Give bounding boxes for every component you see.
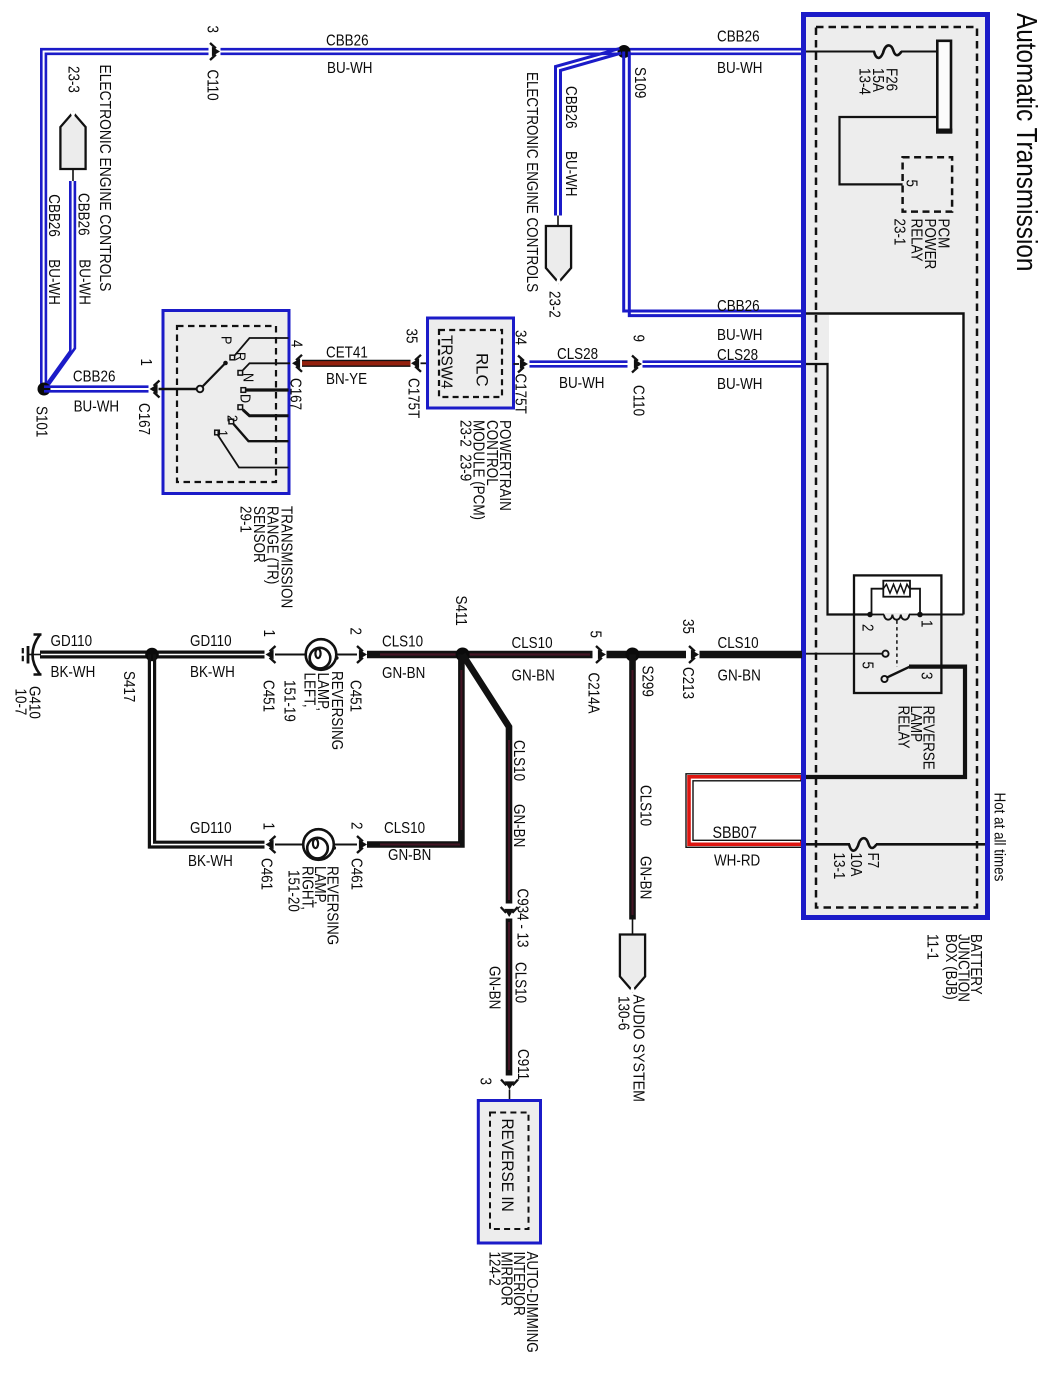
svg-text:5: 5 bbox=[858, 662, 875, 669]
wire CLS28 PCM to BJB bbox=[530, 362, 803, 367]
svg-text:Automatic Transmission: Automatic Transmission bbox=[1011, 13, 1043, 271]
connector C451 pin1 arrow bbox=[266, 646, 276, 663]
BJB name labels bbox=[923, 934, 984, 1002]
svg-text:BU-WH: BU-WH bbox=[717, 376, 763, 393]
relay name labels bbox=[894, 706, 936, 770]
mirror dashed border bbox=[490, 1113, 529, 1230]
splice S101 bbox=[38, 383, 51, 396]
svg-text:CLS10: CLS10 bbox=[382, 634, 423, 651]
svg-text:BK-WH: BK-WH bbox=[188, 853, 233, 870]
svg-text:S109: S109 bbox=[631, 67, 648, 98]
ground G410 bbox=[23, 635, 42, 675]
svg-text:CBB26: CBB26 bbox=[717, 298, 760, 315]
splice S411 bbox=[456, 648, 470, 662]
relay pin 2 dot bbox=[867, 612, 873, 618]
svg-text:C461: C461 bbox=[347, 858, 364, 890]
wire CLS10 S411 diagonal down to mirror bbox=[463, 655, 509, 1076]
TR stub D bbox=[243, 410, 289, 416]
svg-text:C110: C110 bbox=[203, 70, 220, 101]
svg-text:CLS28: CLS28 bbox=[717, 347, 758, 364]
splice S417 bbox=[145, 648, 159, 662]
svg-text:GN-BN: GN-BN bbox=[718, 668, 761, 685]
svg-text:ELECTRONIC ENGINE CONTROLS: ELECTRONIC ENGINE CONTROLS bbox=[96, 65, 113, 292]
svg-text:CLS10: CLS10 bbox=[718, 635, 759, 652]
svg-text:C213: C213 bbox=[679, 667, 696, 699]
wire GD110 ground to C451 bbox=[40, 652, 265, 657]
svg-text:GN-BN: GN-BN bbox=[388, 847, 431, 864]
TR stub 2 bbox=[234, 424, 289, 441]
svg-text:C167: C167 bbox=[135, 403, 152, 435]
svg-text:23-2 23-9: 23-2 23-9 bbox=[456, 420, 473, 481]
PCM power relay dashed box bbox=[903, 157, 953, 211]
svg-text:BU-WH: BU-WH bbox=[562, 151, 579, 197]
wire SBB07 loop inner bbox=[693, 781, 802, 841]
wire CBB26 S101 to TR sensor bbox=[44, 387, 149, 392]
svg-text:D: D bbox=[237, 394, 254, 403]
wire CBB26 S109 down to BJB bbox=[624, 52, 802, 312]
relay actuation dashed line bbox=[896, 621, 898, 668]
connector C934 arrow bbox=[501, 907, 518, 917]
svg-text:C461: C461 bbox=[257, 858, 274, 890]
svg-text:C451: C451 bbox=[259, 680, 276, 712]
svg-text:C167: C167 bbox=[286, 378, 303, 410]
relay pin 5 feed wire bbox=[806, 653, 882, 655]
connector C110 pin9 arrow bbox=[632, 356, 642, 373]
relay pin 1 dot bbox=[917, 612, 923, 618]
svg-text:GD110: GD110 bbox=[51, 633, 93, 650]
fuse F7 bbox=[849, 838, 877, 850]
svg-text:SBB07: SBB07 bbox=[713, 824, 757, 842]
svg-text:F7: F7 bbox=[864, 853, 881, 869]
svg-text:5: 5 bbox=[586, 631, 603, 638]
auto-dimming mirror box bbox=[478, 1101, 540, 1244]
svg-text:CBB26: CBB26 bbox=[74, 193, 91, 236]
svg-text:N: N bbox=[240, 373, 257, 382]
svg-text:BU-WH: BU-WH bbox=[717, 327, 763, 344]
svg-text:C934 - 13: C934 - 13 bbox=[513, 889, 530, 948]
connector C214A arrow bbox=[596, 646, 606, 663]
svg-text:CET41: CET41 bbox=[326, 345, 368, 362]
connector C461 pin1 arrow bbox=[266, 836, 276, 853]
svg-text:124-2: 124-2 bbox=[485, 1252, 502, 1286]
offpage arrow electronic engine controls 23-2 bbox=[546, 226, 571, 284]
reversing lamp left bbox=[306, 639, 339, 670]
svg-text:WH-RD: WH-RD bbox=[714, 853, 760, 870]
svg-text:23-2: 23-2 bbox=[545, 291, 562, 318]
svg-text:C175T: C175T bbox=[404, 378, 421, 418]
svg-text:RELAY: RELAY bbox=[907, 219, 924, 262]
connector C110 pin9 gap bbox=[628, 357, 643, 372]
svg-text:CBB26: CBB26 bbox=[73, 368, 116, 385]
offpage arrow audio system bbox=[620, 935, 645, 993]
svg-text:3: 3 bbox=[476, 1078, 493, 1085]
svg-text:RLC: RLC bbox=[472, 353, 490, 387]
TR sensor dashed border bbox=[177, 326, 276, 482]
svg-text:BU-WH: BU-WH bbox=[45, 259, 62, 305]
connector C167 pin1 arrow bbox=[150, 381, 160, 398]
relay resistor parallel links bbox=[872, 589, 921, 615]
svg-text:1: 1 bbox=[260, 630, 277, 637]
wire SBB07 loop red band bbox=[689, 777, 802, 845]
svg-text:34: 34 bbox=[511, 330, 528, 345]
svg-text:10A: 10A bbox=[847, 853, 864, 877]
TR contact 2 bbox=[229, 419, 234, 424]
TR sensor common wire bbox=[159, 388, 197, 390]
connector C213 arrow bbox=[689, 646, 699, 663]
svg-text:BOX (BJB): BOX (BJB) bbox=[942, 934, 959, 1000]
svg-text:29-1: 29-1 bbox=[236, 506, 253, 533]
svg-text:CBB26: CBB26 bbox=[326, 33, 369, 50]
TR contact 1 bbox=[215, 430, 220, 435]
svg-text:10-7: 10-7 bbox=[11, 689, 28, 716]
wire F26 feed inside BJB bbox=[806, 51, 937, 53]
connector C175T pin34 arrow bbox=[514, 363, 520, 365]
wire CET41 bbox=[302, 360, 411, 367]
relay coil bbox=[870, 614, 920, 616]
svg-text:9: 9 bbox=[629, 335, 646, 342]
wire CBB26 top run bbox=[41, 49, 802, 385]
svg-text:35: 35 bbox=[679, 619, 696, 634]
splice S299 bbox=[626, 648, 640, 662]
TR stub 1 bbox=[218, 435, 289, 468]
battery junction box BJB body bbox=[804, 15, 988, 918]
wire SBB07 loop outer bbox=[686, 774, 802, 848]
fuse F26 bbox=[874, 45, 902, 57]
wire CLS10 lamp left to S411 to BJB bbox=[367, 651, 802, 659]
BJB inner white zone bbox=[829, 315, 962, 613]
relay armature contact bbox=[881, 676, 887, 682]
PCM box bbox=[428, 318, 514, 408]
relay pin 5 contact bbox=[882, 651, 888, 657]
svg-text:CLS10: CLS10 bbox=[512, 635, 553, 652]
svg-text:BU-WH: BU-WH bbox=[559, 375, 605, 392]
svg-text:ELECTRONIC ENGINE CONTROLS: ELECTRONIC ENGINE CONTROLS bbox=[523, 72, 540, 292]
fuse F7 labels bbox=[830, 853, 881, 880]
wire GD110 S417 down to lamp right bbox=[149, 655, 264, 848]
TR contact D bbox=[238, 405, 243, 410]
svg-text:GD110: GD110 bbox=[190, 820, 232, 837]
svg-text:23-3: 23-3 bbox=[64, 66, 81, 93]
connector C461 pin2 arrow bbox=[334, 844, 357, 846]
svg-text:CBB26: CBB26 bbox=[562, 86, 579, 129]
svg-text:3: 3 bbox=[917, 672, 934, 679]
relay pin 3 output wire bbox=[806, 667, 965, 777]
svg-text:2: 2 bbox=[858, 624, 875, 631]
reversing lamp right bbox=[303, 829, 336, 860]
offpage arrow electronic engine controls 23-3 bbox=[60, 111, 85, 169]
connector C451 pin2 arrow bbox=[337, 654, 357, 656]
svg-text:LEFT,: LEFT, bbox=[300, 673, 317, 708]
TR stub P bbox=[235, 338, 289, 355]
svg-text:CBB26: CBB26 bbox=[45, 194, 62, 237]
svg-text:C175T: C175T bbox=[511, 374, 528, 414]
svg-text:2: 2 bbox=[224, 415, 241, 422]
wire CBB26 from arrow 23-3 to S101 bbox=[43, 181, 70, 389]
svg-text:BU-WH: BU-WH bbox=[717, 60, 763, 77]
svg-text:1: 1 bbox=[214, 430, 231, 437]
svg-text:13-4: 13-4 bbox=[855, 68, 872, 95]
wire CBB26 bus inside BJB bbox=[806, 314, 964, 615]
TR sensor box bbox=[163, 311, 289, 494]
PCM name labels bbox=[456, 420, 513, 520]
TR stub N bbox=[246, 388, 289, 391]
svg-text:C214A: C214A bbox=[584, 673, 601, 714]
svg-text:Hot at all times: Hot at all times bbox=[990, 793, 1007, 882]
wire CLS28 inside BJB to relay pin 2 bbox=[806, 364, 870, 615]
svg-text:CLS28: CLS28 bbox=[557, 346, 598, 363]
TR contact P bbox=[230, 355, 235, 360]
svg-text:23-1: 23-1 bbox=[890, 219, 907, 246]
svg-text:S411: S411 bbox=[452, 596, 469, 626]
svg-text:CLS10: CLS10 bbox=[511, 962, 528, 1003]
wire CBB26 S109 branch to arrow 23-2 bbox=[556, 49, 620, 216]
svg-text:1: 1 bbox=[259, 823, 276, 830]
svg-text:GN-BN: GN-BN bbox=[510, 804, 527, 847]
svg-text:2: 2 bbox=[347, 822, 364, 829]
TR contact R bbox=[238, 371, 243, 376]
svg-text:C451: C451 bbox=[346, 680, 363, 712]
fuse F7 feed wires bbox=[806, 843, 988, 846]
svg-text:13-1: 13-1 bbox=[830, 853, 847, 880]
connector C110 gap bbox=[209, 44, 221, 59]
svg-text:BU-WH: BU-WH bbox=[327, 60, 373, 77]
wire CLS10 S299 down to audio bbox=[629, 655, 636, 920]
svg-text:R: R bbox=[232, 352, 249, 361]
TR sensor pivot bbox=[197, 386, 204, 393]
svg-text:5: 5 bbox=[902, 180, 919, 187]
TR sensor name labels bbox=[236, 506, 294, 608]
svg-text:1: 1 bbox=[917, 620, 934, 627]
svg-text:GN-BN: GN-BN bbox=[485, 966, 502, 1009]
svg-text:151-19: 151-19 bbox=[280, 680, 297, 722]
BJB inner dashed border bbox=[816, 27, 977, 908]
svg-text:3: 3 bbox=[203, 26, 220, 33]
reversing lamp right labels bbox=[284, 866, 340, 945]
svg-text:GN-BN: GN-BN bbox=[512, 668, 555, 685]
PCM dashed border bbox=[439, 330, 502, 397]
relay resistor box bbox=[883, 581, 910, 597]
svg-text:BK-WH: BK-WH bbox=[190, 664, 235, 681]
svg-text:P: P bbox=[218, 336, 235, 344]
svg-text:11-1: 11-1 bbox=[923, 934, 940, 960]
TR contact N bbox=[241, 388, 246, 393]
svg-text:BU-WH: BU-WH bbox=[75, 259, 92, 305]
BJB blue border bbox=[804, 15, 988, 918]
svg-text:BN-YE: BN-YE bbox=[326, 371, 367, 388]
relay armature bbox=[887, 667, 910, 678]
svg-text:CLS10: CLS10 bbox=[510, 740, 527, 781]
wire CLS10 lamp right up to S411 bbox=[367, 655, 461, 845]
connector C167 pin4 arrow bbox=[292, 355, 302, 372]
TR sensor armature bbox=[202, 364, 224, 387]
svg-text:4: 4 bbox=[287, 340, 304, 347]
TR stub R exit bbox=[243, 363, 290, 370]
svg-text:S299: S299 bbox=[638, 666, 655, 697]
connector C911 arrow bbox=[501, 1080, 518, 1090]
splice S109 bbox=[618, 45, 631, 58]
wire bus to PCM power relay bbox=[840, 117, 938, 184]
svg-text:BK-WH: BK-WH bbox=[51, 664, 96, 681]
bus bar bbox=[937, 41, 951, 133]
svg-text:GN-BN: GN-BN bbox=[636, 856, 653, 899]
fuse F26 value labels bbox=[855, 68, 899, 95]
svg-text:151-20: 151-20 bbox=[284, 870, 301, 912]
connector C175T pin35 arrow bbox=[411, 355, 421, 372]
mirror name labels bbox=[485, 1252, 540, 1353]
svg-text:RELAY: RELAY bbox=[894, 706, 911, 749]
svg-text:C911: C911 bbox=[514, 1049, 531, 1080]
svg-text:130-6: 130-6 bbox=[614, 996, 631, 1030]
svg-text:S417: S417 bbox=[120, 671, 137, 702]
svg-text:BU-WH: BU-WH bbox=[74, 398, 120, 415]
svg-text:TRSW4: TRSW4 bbox=[437, 335, 454, 389]
svg-text:CBB26: CBB26 bbox=[717, 28, 760, 45]
connector C110 arrow bbox=[210, 43, 220, 60]
PCM power relay name labels bbox=[890, 219, 951, 270]
svg-text:CLS10: CLS10 bbox=[384, 820, 425, 837]
svg-text:C110: C110 bbox=[629, 385, 646, 416]
svg-text:REVERSE IN: REVERSE IN bbox=[498, 1119, 516, 1212]
TR position letters bbox=[214, 336, 257, 437]
relay resistor zigzag bbox=[883, 584, 909, 593]
reversing lamp left labels bbox=[280, 671, 345, 750]
svg-text:GN-BN: GN-BN bbox=[382, 665, 425, 682]
svg-text:1: 1 bbox=[137, 359, 154, 366]
wire to relay pin 1 bbox=[920, 614, 964, 616]
reverse lamp relay box bbox=[854, 575, 941, 693]
svg-text:CLS10: CLS10 bbox=[636, 785, 653, 826]
svg-text:GD110: GD110 bbox=[190, 633, 232, 650]
svg-text:S101: S101 bbox=[32, 406, 49, 437]
svg-text:2: 2 bbox=[346, 628, 363, 635]
svg-text:35: 35 bbox=[402, 329, 419, 344]
